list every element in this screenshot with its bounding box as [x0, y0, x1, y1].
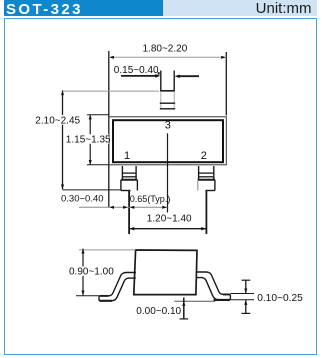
svg-text:0.90~1.00: 0.90~1.00: [69, 267, 114, 278]
svg-text:2: 2: [201, 150, 207, 162]
dimension 0.00~0.10 arrow: [183, 298, 185, 320]
pin 1 center extension line: [128, 191, 130, 235]
dimension line 1.15~1.35: [89, 115, 91, 165]
dimension line 1.80~2.20: [109, 56, 227, 58]
extension line 0.90~1.00 bottom: [76, 295, 99, 297]
pin 3 lead (top view): [160, 71, 162, 92]
right lead foot thick top: [223, 293, 230, 295]
svg-text:0.00~0.10: 0.00~0.10: [136, 306, 181, 317]
dimension line 0.90~1.00: [82, 249, 84, 296]
seating plane extension line: [174, 300, 215, 302]
extension line 0.90~1.00 top: [79, 249, 136, 251]
header title bar: [4, 0, 163, 16]
right lead foot thick bottom: [214, 299, 230, 301]
svg-text:1.20~1.40: 1.20~1.40: [147, 214, 192, 225]
dim text 2.10~2.45: [34, 115, 82, 125]
pin 2 lead (top view): [198, 166, 200, 180]
svg-text:1.15~1.35: 1.15~1.35: [66, 134, 111, 145]
right lead (side view): [196, 272, 230, 300]
dimension line 2.10~2.45: [62, 90, 64, 189]
dim text 0.90~1.00: [68, 267, 112, 276]
svg-text:0.10~0.25: 0.10~0.25: [257, 293, 303, 304]
dim text 1.15~1.35: [65, 134, 109, 144]
svg-text:1.80~2.20: 1.80~2.20: [143, 44, 188, 55]
dimension 0.10~0.25 lower arrow: [245, 300, 247, 313]
arrow left of pin3 lead: [121, 75, 157, 77]
package body inner outline (top view): [113, 120, 223, 162]
extension line 1.15~1.35 bottom: [87, 164, 109, 166]
dimension line 1.20~1.40: [129, 228, 206, 230]
left lead foot thick bottom: [100, 300, 112, 302]
package body outer outline (top view): [109, 117, 227, 165]
extension line 1.15~1.35 top: [87, 114, 109, 116]
dimension 0.10~0.25 upper arrow: [245, 280, 247, 293]
pin 1 lead (top view): [121, 166, 123, 180]
pin 2 center extension line: [205, 191, 207, 235]
extension line 2.10~2.45 bottom: [63, 189, 121, 191]
extension line 2.10~2.45 top: [63, 90, 160, 92]
svg-text:2.10~2.45: 2.10~2.45: [35, 115, 80, 126]
svg-text:3: 3: [165, 119, 171, 131]
svg-text:0.30~0.40: 0.30~0.40: [61, 194, 104, 205]
tick after 0.15~0.40 text: [158, 72, 160, 75]
arrow right of pin3 lead: [178, 75, 199, 77]
svg-text:1: 1: [124, 150, 130, 162]
shared dimension line 0.30~0.40 / 0.65: [79, 206, 167, 208]
extension line 0.10~0.25 top: [231, 293, 255, 295]
svg-text:0.65(Typ.): 0.65(Typ.): [130, 194, 171, 204]
svg-text:0.15~0.40: 0.15~0.40: [114, 65, 159, 76]
extension line, body right edge extended: [225, 52, 227, 116]
extension line 0.10~0.25 bottom: [231, 299, 255, 301]
left lead foot thick top: [100, 295, 109, 297]
left lead (side view): [99, 273, 136, 301]
package body (side view): [134, 250, 197, 295]
package center line: [167, 133, 169, 212]
extension line, body left edge extended: [108, 51, 110, 208]
